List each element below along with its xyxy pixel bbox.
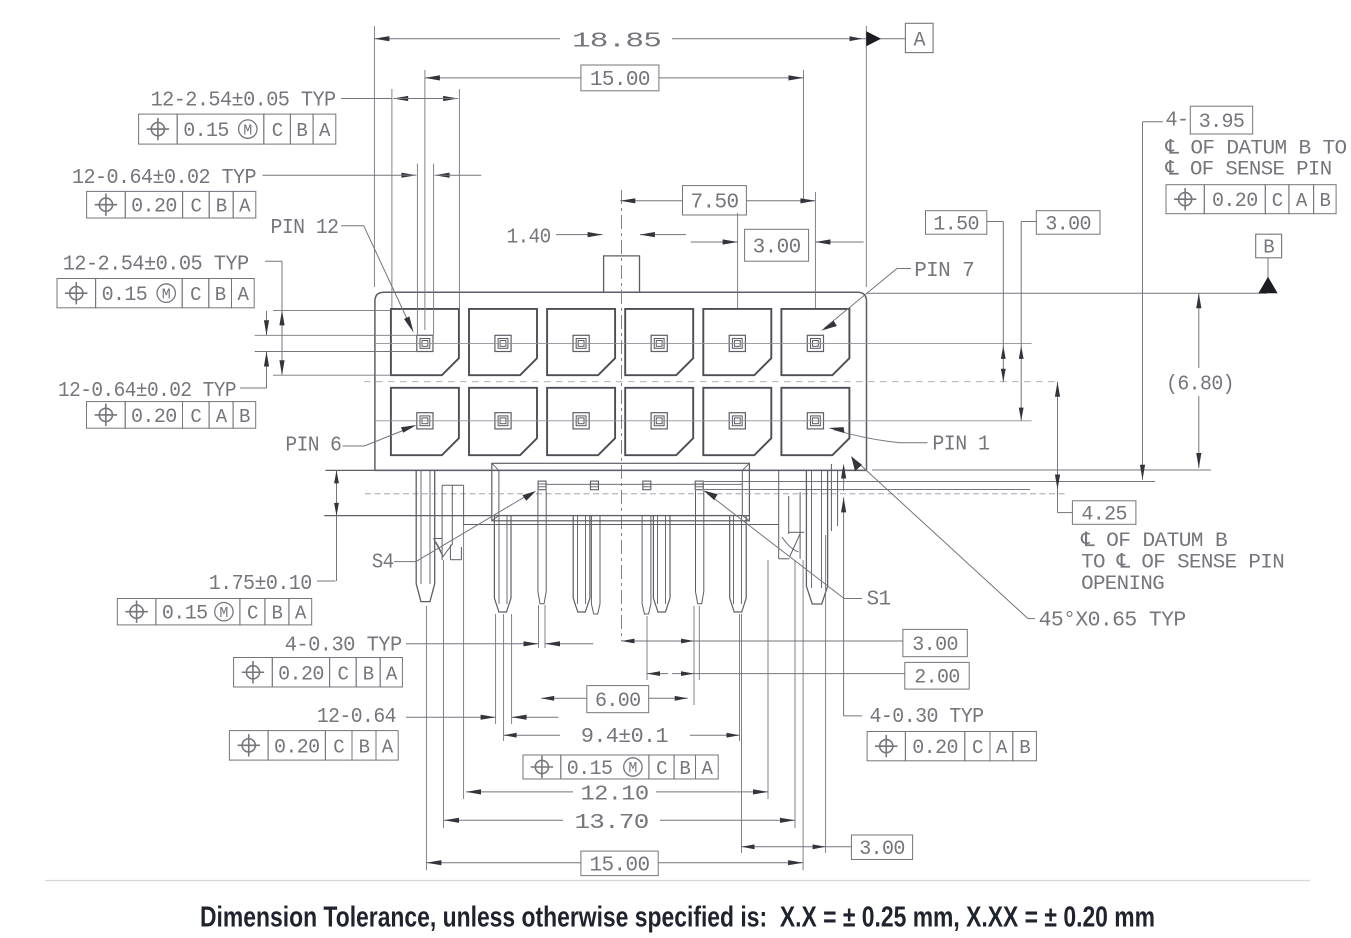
svg-text:0.20: 0.20 (912, 737, 958, 760)
svg-text:A: A (386, 663, 398, 685)
left latch structure (441, 485, 443, 560)
dimension (6.80) (1198, 293, 1200, 368)
svg-text:A: A (319, 120, 331, 142)
dimension 12-0.64 left arrows (266, 311, 268, 335)
left peg pin 12/6 column (416, 470, 435, 601)
15.00 box (581, 65, 659, 91)
sense pin S3 (590, 481, 598, 490)
cavity pin 8 (703, 309, 771, 375)
dashed separator line (364, 381, 1058, 383)
svg-text:4-0.30 TYP: 4-0.30 TYP (870, 706, 984, 729)
svg-text:A: A (382, 736, 394, 758)
svg-text:18.85: 18.85 (572, 31, 661, 54)
svg-text:3.00: 3.00 (1045, 213, 1091, 236)
datum B flag (1256, 234, 1282, 258)
svg-text:C: C (190, 284, 201, 306)
cavity pin 5 (469, 388, 537, 455)
svg-text:B: B (215, 284, 226, 306)
3.00 box row I (851, 835, 912, 860)
svg-text:TO ℄ OF SENSE PIN: TO ℄ OF SENSE PIN (1081, 552, 1284, 575)
svg-text:℄ OF SENSE PIN: ℄ OF SENSE PIN (1164, 159, 1331, 182)
dimension 18.85 (373, 26, 375, 287)
dimension 7.50 (620, 200, 682, 202)
2.00 box (905, 662, 969, 689)
1.50 box (926, 211, 987, 235)
contact pin 11 (495, 335, 511, 351)
svg-text:A: A (295, 603, 307, 625)
svg-text:B: B (271, 603, 282, 625)
label 4-0.30 TYP (right) (844, 715, 862, 717)
svg-text:12.10: 12.10 (581, 784, 649, 807)
svg-text:A: A (237, 284, 249, 306)
svg-text:0.15: 0.15 (102, 284, 148, 307)
svg-text:4-0.30 TYP: 4-0.30 TYP (285, 635, 402, 658)
svg-text:A: A (996, 737, 1008, 759)
contact pin 1 (807, 413, 823, 429)
svg-text:12-0.64: 12-0.64 (317, 706, 396, 729)
cavity pin 11 (469, 309, 537, 375)
pin column 2 (494, 516, 511, 612)
4.25 box (1072, 501, 1136, 525)
svg-text:0.20: 0.20 (274, 736, 320, 759)
svg-text:M: M (628, 760, 637, 777)
svg-text:C: C (333, 736, 344, 758)
svg-text:2.00: 2.00 (914, 667, 960, 690)
dimension 3.00 (row I) (742, 846, 826, 848)
contact pin 8 (729, 335, 745, 351)
svg-text:1.40: 1.40 (507, 227, 551, 250)
svg-text:A: A (1296, 190, 1308, 212)
svg-text:(6.80): (6.80) (1166, 374, 1234, 397)
row2 pin centerline (375, 420, 1032, 422)
svg-text:1.50: 1.50 (933, 213, 979, 236)
svg-text:0.20: 0.20 (1212, 190, 1258, 213)
dimension arrows right of band (843, 469, 845, 492)
3.95 box (1190, 106, 1252, 134)
FCF position 0.15 M C B A (top) (139, 114, 178, 144)
dimension 12.10 (466, 791, 573, 793)
svg-text:A: A (913, 30, 925, 53)
FCF position 0.20 C A B (top right) (1166, 185, 1204, 214)
FCF position 0.20 C B A (upper-left) (87, 191, 126, 218)
FCF position 0.20 C B A (4-0.30) (234, 658, 273, 688)
row1 pin centerline (375, 342, 1032, 344)
contact pin 5 (495, 413, 511, 429)
contact pin 12 (417, 335, 433, 351)
contact pin 7 (807, 335, 823, 351)
svg-text:45°X0.65 TYP: 45°X0.65 TYP (1039, 610, 1186, 633)
svg-text:PIN 6: PIN 6 (285, 435, 341, 458)
svg-text:B: B (1019, 737, 1030, 759)
svg-text:B: B (363, 663, 374, 685)
rear tower outline (492, 463, 750, 521)
FCF position 0.20 C A B (lower-left) (87, 402, 126, 429)
svg-text:12-0.64±0.02 TYP: 12-0.64±0.02 TYP (72, 167, 256, 190)
svg-text:A: A (701, 758, 713, 780)
svg-text:B: B (1263, 237, 1274, 259)
side view band top edge (325, 469, 866, 471)
svg-text:PIN 7: PIN 7 (914, 260, 974, 283)
band bottom second edge (464, 524, 779, 526)
FCF position 0.20 C A B (lower right) (867, 732, 905, 761)
dimension 12-0.64 TYP top arrows (416, 164, 418, 335)
FCF position 0.20 C B A (12-0.64) (229, 731, 268, 761)
side view dashed centerline (365, 493, 1067, 495)
footer separator (45, 880, 1310, 882)
svg-text:C: C (337, 663, 348, 685)
connector front view body (375, 292, 867, 470)
svg-text:7.50: 7.50 (690, 191, 738, 214)
FCF position 0.15 M C B A (left) (57, 279, 96, 308)
band top extension to right (872, 469, 1211, 471)
svg-text:15.00: 15.00 (590, 69, 650, 92)
bottom extension lines (425, 606, 427, 870)
sense tail S2 (642, 516, 651, 614)
cavity pin 4 (547, 388, 615, 455)
svg-text:3.95: 3.95 (1199, 111, 1245, 134)
svg-text:9.4±0.1: 9.4±0.1 (581, 726, 668, 749)
svg-text:3.00: 3.00 (912, 634, 958, 657)
svg-text:0.20: 0.20 (278, 663, 324, 686)
sense pin S4 (538, 481, 546, 490)
left latch foot (449, 545, 451, 560)
sense pin S1 top edge extension (704, 481, 1155, 483)
datum A flag (866, 31, 881, 46)
dimension 15.00 (bottom) (426, 862, 581, 864)
contact pin 10 (573, 335, 589, 351)
svg-text:℄ OF DATUM B: ℄ OF DATUM B (1080, 530, 1228, 553)
vertical centerline (621, 190, 623, 641)
cavity pin 7 (781, 309, 849, 375)
label 45 x0.65 TYP + leader (851, 457, 1028, 619)
svg-text:B: B (359, 736, 370, 758)
svg-text:0.15: 0.15 (162, 603, 208, 626)
svg-text:M: M (243, 122, 252, 139)
svg-text:3.00: 3.00 (753, 236, 801, 259)
svg-text:C: C (972, 737, 983, 759)
svg-text:A: A (216, 406, 228, 428)
sense tail S4 (538, 491, 546, 604)
15.00 box bottom (581, 851, 658, 876)
polarization key on top edge (604, 256, 640, 292)
svg-text:Dimension Tolerance, unless ot: Dimension Tolerance, unless otherwise sp… (200, 902, 1155, 934)
tower corner bevels (492, 463, 499, 470)
svg-text:C: C (1272, 190, 1283, 212)
svg-text:13.70: 13.70 (575, 812, 649, 835)
svg-text:M: M (162, 286, 171, 303)
cavity pin 2 (703, 388, 771, 455)
svg-text:B: B (679, 758, 690, 780)
dimension 3.00 (row A right) (622, 640, 695, 642)
cavity pin 12 (391, 309, 459, 375)
contact pin 2 (729, 413, 745, 429)
right peg pin 7/1 column (806, 470, 827, 604)
7.50 box (683, 186, 747, 215)
dimension 12-2.54 TYP top arrows (391, 89, 393, 308)
svg-text:0.20: 0.20 (131, 196, 177, 219)
dimension 6.00 (541, 697, 587, 699)
cavity pin 3 (625, 388, 693, 455)
svg-text:A: A (239, 196, 251, 218)
svg-text:PIN 12: PIN 12 (271, 217, 339, 240)
svg-text:S1: S1 (867, 589, 891, 612)
cavity pin 1 (781, 388, 849, 455)
sense pin S1 bottom edge extension (704, 489, 1030, 491)
contact pin 9 (651, 335, 667, 351)
svg-text:3.00: 3.00 (859, 838, 905, 861)
svg-text:℄ OF DATUM B TO: ℄ OF DATUM B TO (1164, 138, 1346, 161)
sense pin S1 (695, 481, 703, 490)
svg-text:B: B (1319, 190, 1330, 212)
contact pin 6 (417, 413, 433, 429)
pin column 3 (573, 516, 590, 612)
contact pin 4 (573, 413, 589, 429)
dimension 13.70 (444, 819, 563, 821)
svg-text:4-: 4- (1166, 110, 1189, 133)
svg-text:C: C (190, 406, 201, 428)
svg-text:B: B (239, 406, 250, 428)
svg-text:M: M (219, 605, 228, 622)
band bottom edge (324, 515, 749, 517)
left extension lines (273, 309, 391, 311)
cavity pin 6 (391, 388, 459, 455)
svg-text:B: B (296, 120, 307, 142)
contact pin 3 (651, 413, 667, 429)
svg-text:15.00: 15.00 (590, 854, 650, 877)
cavity pin 10 (547, 309, 615, 375)
svg-text:4.25: 4.25 (1081, 503, 1127, 526)
svg-text:C: C (247, 603, 258, 625)
pin column 5 (730, 516, 747, 612)
right latch structure (778, 470, 780, 558)
dimension 2.00 (647, 673, 668, 675)
svg-text:B: B (216, 196, 227, 218)
dimension 4.25 (1057, 382, 1059, 513)
datum B line (867, 292, 1268, 294)
3.00 box row A (903, 629, 967, 656)
svg-text:C: C (656, 758, 667, 780)
svg-text:12-0.64±0.02 TYP: 12-0.64±0.02 TYP (58, 380, 236, 403)
svg-text:C: C (190, 196, 201, 218)
FCF position 0.15 M C B A (9.4) (523, 755, 561, 779)
svg-text:0.20: 0.20 (131, 406, 177, 429)
6.00 box (587, 686, 649, 713)
svg-text:12-2.54±0.05 TYP: 12-2.54±0.05 TYP (151, 90, 336, 113)
svg-text:6.00: 6.00 (595, 690, 641, 713)
3.00 box right (1036, 211, 1100, 235)
sense tail S1 (696, 491, 704, 604)
sense pin connecting line (546, 483, 742, 485)
sense tail S3 (591, 516, 600, 614)
dimension 3.00 (top) (737, 213, 739, 308)
svg-text:OPENING: OPENING (1081, 573, 1164, 596)
svg-text:1.75±0.10: 1.75±0.10 (209, 573, 312, 596)
pin column 4 (653, 516, 670, 612)
svg-text:0.15: 0.15 (567, 758, 613, 781)
sense pin S2 (643, 481, 651, 490)
svg-text:PIN 1: PIN 1 (932, 434, 989, 457)
rear tower inner wall (499, 470, 742, 515)
svg-text:12-2.54±0.05 TYP: 12-2.54±0.05 TYP (63, 254, 249, 277)
svg-text:0.15: 0.15 (183, 120, 229, 143)
FCF position 0.15 M C B A (1.75) (117, 599, 156, 625)
3.00 box top (745, 229, 809, 261)
svg-text:S4: S4 (372, 552, 394, 575)
cavity pin 9 (625, 309, 693, 375)
svg-text:C: C (272, 120, 283, 142)
dimension 15.00 top (424, 70, 426, 330)
